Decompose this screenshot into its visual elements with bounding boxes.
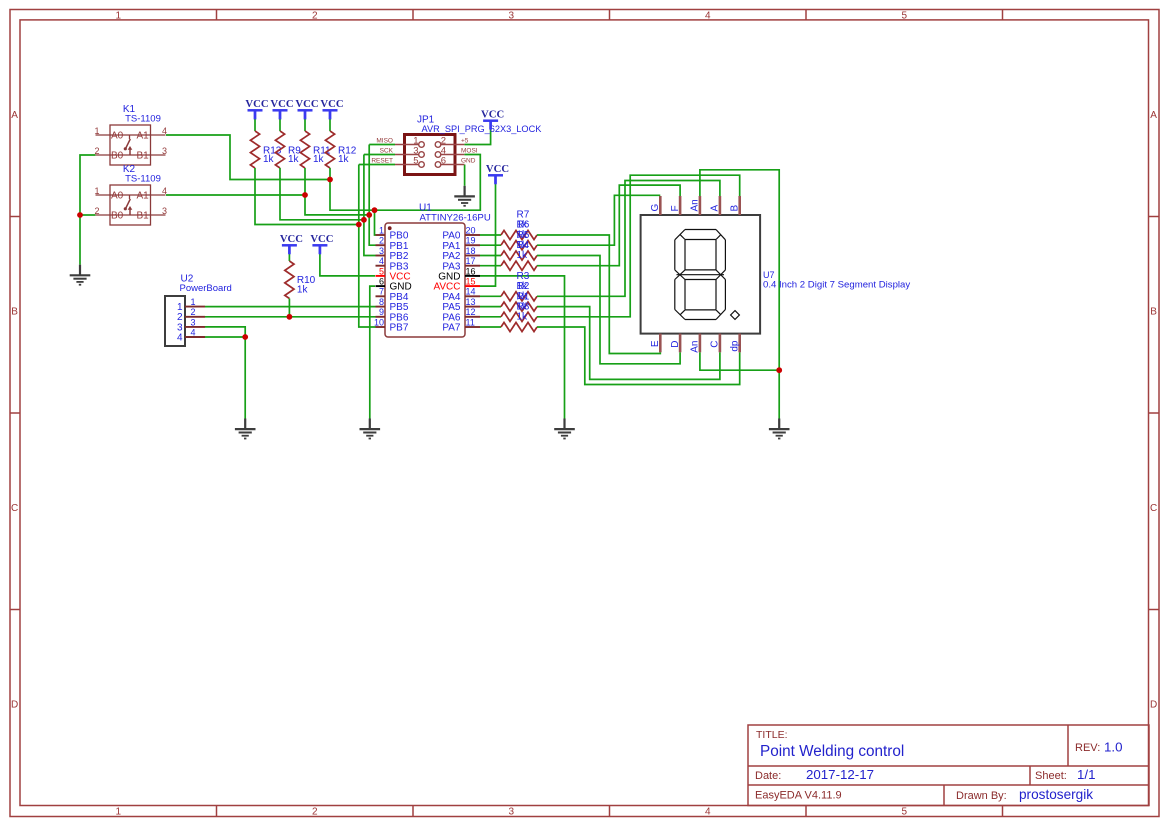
svg-text:12: 12 <box>466 307 476 317</box>
svg-text:2: 2 <box>379 236 384 246</box>
svg-text:TITLE:: TITLE: <box>756 729 788 741</box>
svg-text:1: 1 <box>116 10 122 21</box>
svg-text:3: 3 <box>162 206 167 216</box>
svg-text:A0: A0 <box>111 131 124 142</box>
svg-text:D: D <box>1150 699 1157 710</box>
svg-text:C: C <box>710 341 721 348</box>
svg-text:Point Welding control: Point Welding control <box>760 743 904 760</box>
svg-text:2: 2 <box>191 307 196 317</box>
svg-text:MISO: MISO <box>376 138 393 145</box>
svg-text:D: D <box>670 341 681 348</box>
svg-text:U7: U7 <box>763 270 775 280</box>
svg-text:TS-1109: TS-1109 <box>125 114 161 125</box>
svg-text:E: E <box>650 340 661 347</box>
svg-text:A1: A1 <box>137 131 150 142</box>
svg-text:VCC: VCC <box>245 98 268 110</box>
svg-text:1: 1 <box>95 186 100 196</box>
svg-text:An: An <box>690 199 701 211</box>
svg-text:Sheet:: Sheet: <box>1035 770 1067 782</box>
svg-text:2017-12-17: 2017-12-17 <box>806 767 874 782</box>
svg-text:SCK: SCK <box>380 148 394 155</box>
svg-text:1k: 1k <box>517 312 529 323</box>
svg-text:ATTINY26-16PU: ATTINY26-16PU <box>420 213 491 224</box>
svg-text:dp: dp <box>730 340 741 352</box>
svg-text:A: A <box>1150 110 1157 121</box>
svg-text:GND: GND <box>461 158 476 165</box>
svg-text:VCC: VCC <box>320 98 343 110</box>
svg-text:C: C <box>11 503 18 514</box>
svg-text:11: 11 <box>466 317 475 327</box>
svg-text:3: 3 <box>509 806 515 817</box>
svg-text:B0: B0 <box>111 151 124 162</box>
svg-text:5: 5 <box>379 266 384 276</box>
svg-text:1k: 1k <box>517 250 529 261</box>
svg-text:C: C <box>1150 503 1157 514</box>
svg-text:1k: 1k <box>338 154 350 165</box>
svg-text:MOSI: MOSI <box>461 148 478 155</box>
svg-text:B0: B0 <box>111 211 124 222</box>
svg-text:5: 5 <box>902 806 908 817</box>
svg-text:VCC: VCC <box>486 163 509 175</box>
svg-text:B1: B1 <box>137 211 150 222</box>
svg-text:VCC: VCC <box>280 233 303 245</box>
svg-text:Drawn By:: Drawn By: <box>956 790 1007 802</box>
svg-text:5: 5 <box>902 10 908 21</box>
svg-text:REV:: REV: <box>1075 742 1100 754</box>
svg-text:B: B <box>730 205 741 212</box>
svg-text:prostosergik: prostosergik <box>1019 787 1093 802</box>
svg-text:1: 1 <box>191 297 196 307</box>
svg-text:10: 10 <box>374 317 384 327</box>
svg-text:D: D <box>11 699 18 710</box>
svg-text:A0: A0 <box>111 191 124 202</box>
svg-text:4: 4 <box>705 806 711 817</box>
svg-text:AVR_SPI_PRG_62X3_LOCK: AVR_SPI_PRG_62X3_LOCK <box>422 124 543 134</box>
svg-text:3: 3 <box>162 146 167 156</box>
svg-text:4: 4 <box>191 327 196 337</box>
svg-text:VCC: VCC <box>270 98 293 110</box>
svg-text:EasyEDA V4.11.9: EasyEDA V4.11.9 <box>755 790 842 802</box>
svg-text:1/1: 1/1 <box>1077 767 1096 782</box>
svg-text:A1: A1 <box>137 191 150 202</box>
svg-text:TS-1109: TS-1109 <box>125 174 161 185</box>
svg-text:A: A <box>710 205 721 212</box>
svg-text:13: 13 <box>466 297 476 307</box>
svg-text:VCC: VCC <box>481 109 504 121</box>
svg-text:1: 1 <box>379 225 384 235</box>
svg-text:F: F <box>670 205 681 211</box>
svg-text:B: B <box>11 306 18 317</box>
svg-text:PowerBoard: PowerBoard <box>180 283 232 294</box>
svg-text:19: 19 <box>466 236 476 246</box>
svg-text:1k: 1k <box>288 154 300 165</box>
svg-text:14: 14 <box>466 287 476 297</box>
svg-text:8: 8 <box>379 297 384 307</box>
svg-text:1.0: 1.0 <box>1104 740 1123 755</box>
svg-text:+5: +5 <box>461 138 469 145</box>
svg-text:3: 3 <box>509 10 515 21</box>
svg-text:VCC: VCC <box>310 233 333 245</box>
svg-text:An: An <box>690 341 701 353</box>
svg-text:2: 2 <box>312 10 318 21</box>
svg-text:1: 1 <box>95 126 100 136</box>
svg-text:18: 18 <box>466 246 476 256</box>
svg-text:4: 4 <box>379 256 384 266</box>
svg-text:1: 1 <box>116 806 122 817</box>
svg-text:0.4 Inch 2 Digit 7 Segment Dis: 0.4 Inch 2 Digit 7 Segment Display <box>763 279 910 290</box>
svg-text:1k: 1k <box>313 154 325 165</box>
svg-text:4: 4 <box>177 332 183 343</box>
svg-text:B1: B1 <box>137 151 150 162</box>
svg-text:1k: 1k <box>263 154 275 165</box>
svg-text:17: 17 <box>466 256 476 266</box>
svg-text:16: 16 <box>466 266 476 276</box>
svg-text:7: 7 <box>379 287 384 297</box>
svg-text:A: A <box>11 110 18 121</box>
svg-text:15: 15 <box>466 277 476 287</box>
svg-text:3: 3 <box>379 246 384 256</box>
svg-text:1k: 1k <box>297 284 309 295</box>
svg-text:RESET: RESET <box>371 158 393 165</box>
svg-text:4: 4 <box>705 10 711 21</box>
svg-text:Date:: Date: <box>755 770 781 782</box>
svg-text:2: 2 <box>312 806 318 817</box>
svg-text:3: 3 <box>191 317 196 327</box>
svg-text:9: 9 <box>379 307 384 317</box>
svg-text:20: 20 <box>466 225 476 235</box>
svg-text:G: G <box>650 204 661 212</box>
svg-text:B: B <box>1150 306 1157 317</box>
svg-text:VCC: VCC <box>295 98 318 110</box>
svg-text:6: 6 <box>441 155 446 166</box>
svg-text:6: 6 <box>379 277 384 287</box>
svg-text:PA7: PA7 <box>442 323 461 334</box>
svg-text:PB7: PB7 <box>390 323 409 334</box>
svg-text:5: 5 <box>413 155 418 166</box>
